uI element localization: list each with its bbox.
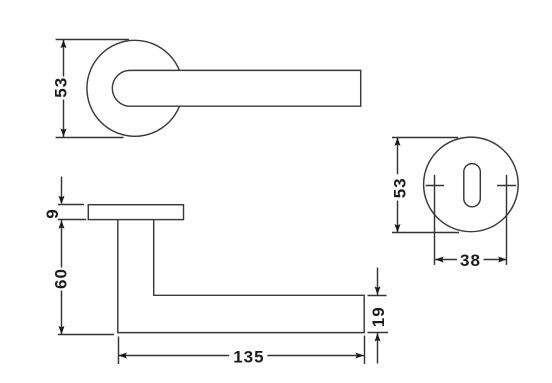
front view: rose circle — [87, 40, 183, 136]
dim 60: dimension line lower segment — [61, 291, 63, 335]
left fixing cross: vertical line — [434, 175, 436, 265]
dim 135: dimension line left segment — [118, 355, 229, 357]
right fixing cross: horizontal arm — [497, 185, 516, 187]
dim 60: bottom extension line — [58, 334, 114, 336]
dim 53 front: dimension line lower segment — [63, 100, 65, 138]
keyhole slot — [464, 164, 481, 207]
svg-text:135: 135 — [233, 348, 264, 367]
dim 135: right arrow — [355, 353, 364, 359]
dim 60: dimension line upper segment — [61, 220, 63, 267]
dim 135: dimension line right segment — [267, 355, 364, 357]
svg-text:9: 9 — [43, 208, 62, 218]
dim 53 escutcheon: dimension line upper segment — [397, 137, 399, 174]
dim 19: bottom extension line — [368, 332, 389, 334]
dim 53 escutcheon: top extension line — [392, 137, 458, 139]
dim 60: down arrow — [59, 326, 65, 335]
dim 9: top extension line — [58, 204, 84, 206]
dim 135: right extension line — [364, 336, 366, 365]
dim 38: right arrow — [498, 257, 507, 263]
dim 19: down arrow — [375, 286, 381, 295]
dim 38: dimension line left segment — [435, 259, 457, 261]
dim 38: dimension line right segment — [484, 259, 507, 261]
dim 53 front: dimension line upper segment — [63, 39, 65, 76]
dim 53 front: up arrow — [61, 40, 67, 49]
right fixing cross: vertical line — [506, 175, 508, 265]
dim 60: up arrow — [59, 220, 65, 229]
dim 53 escutcheon: bottom extension line — [392, 232, 459, 234]
svg-text:53: 53 — [52, 77, 71, 98]
side view: handle L profile — [118, 220, 364, 333]
dim 53 front: bottom extension line — [56, 137, 124, 139]
svg-text:60: 60 — [52, 268, 71, 289]
dim 19: top extension line — [368, 295, 387, 297]
dim 53 front: down arrow — [61, 128, 67, 137]
svg-text:19: 19 — [369, 306, 388, 327]
svg-text:53: 53 — [390, 177, 409, 198]
dim 9: bottom extension line — [58, 219, 86, 221]
dim 53 escutcheon: up arrow — [395, 137, 401, 146]
dim 38: left arrow — [435, 257, 444, 263]
dim 9: upper arrow line — [61, 177, 63, 204]
dim 19: lower arrow line — [377, 333, 379, 364]
svg-text:38: 38 — [460, 251, 481, 270]
dim 53 escutcheon: down arrow — [395, 224, 401, 233]
dim 135: left arrow — [118, 353, 127, 359]
dim 19: up arrow — [375, 333, 381, 342]
dim 9: down arrow — [59, 196, 65, 205]
front view: lever handle capsule — [112, 70, 360, 106]
side view: rose plate rect — [88, 205, 183, 220]
dim 19: upper arrow line — [377, 268, 379, 296]
dim 53 escutcheon: dimension line lower segment — [397, 201, 399, 233]
left fixing cross: horizontal arm — [426, 185, 444, 187]
escutcheon circle — [424, 137, 519, 232]
dim 135: left extension line — [118, 337, 120, 365]
dim 53 front: top extension line — [56, 39, 129, 41]
